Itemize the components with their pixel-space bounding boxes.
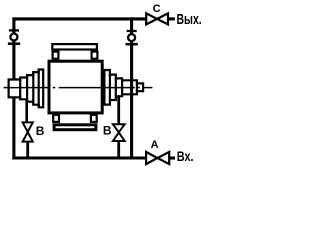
outlet cone rib lines [110,75,137,100]
wire stub after valve C [169,17,175,20]
gauge P1 on left riser [8,30,20,43]
pump top plate [52,44,97,49]
pump top bolt left [53,52,59,59]
wire right riser [130,17,133,159]
wire left riser [12,17,15,159]
pump bottom bolt right [91,115,97,122]
wire valve B1 branch [25,100,28,122]
pump bottom bolt left [53,115,59,122]
svg-text:В: В [103,124,112,138]
valve B1 [23,122,33,141]
valve B2 [113,124,125,141]
wire valve B1 to bottom [26,142,29,160]
svg-text:А: А [151,139,159,151]
wire stub after valve A [169,156,175,159]
wire top header [12,17,145,20]
pump top bolt right [92,52,98,59]
inlet cone body [9,70,44,108]
wire valve B2 branch [117,96,120,124]
pump body [49,61,102,113]
centerline axis [4,87,153,89]
valve A [146,152,169,164]
svg-text:В: В [36,124,45,138]
svg-text:Вх.: Вх. [177,148,194,164]
wire bottom header [12,156,146,159]
svg-text:Вых.: Вых. [177,12,202,28]
gauge P2 on right riser [126,31,138,44]
valve C [146,13,168,24]
wire right riser over cone [130,80,133,94]
svg-text:С: С [153,3,161,15]
outlet cone body [104,70,143,105]
wire valve B2 to bottom [117,141,120,160]
pump bottom plate [54,125,96,130]
inlet cone rib lines [20,70,39,108]
